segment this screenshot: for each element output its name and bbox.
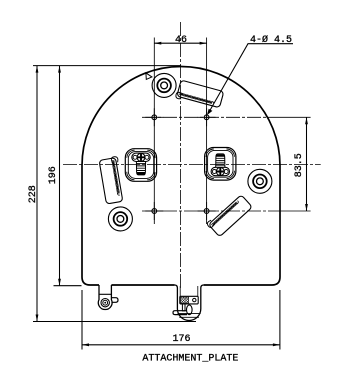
dim 196 line: [59, 66, 61, 286]
right clip small circle: [193, 298, 196, 301]
slot bottom-right: [206, 193, 252, 237]
extension line bottom 228: [33, 321, 196, 323]
extension line bottom 196: [54, 285, 82, 287]
dim 228 arrows: [36, 66, 39, 322]
leader 4-dia4.5: [208, 44, 293, 114]
extension line 176 right: [279, 290, 281, 350]
triangle marker: [146, 73, 152, 80]
left clip seam: [99, 293, 111, 295]
hole row line top (83.5 top extension): [142, 116, 282, 118]
left clip side nub: [111, 298, 118, 303]
hole top-left: [145, 108, 163, 126]
horizontal centerline: [63, 163, 321, 165]
left clip grommet rings: [101, 299, 109, 307]
svg-text:196: 196: [48, 166, 59, 184]
dim 83.5 line: [306, 117, 308, 211]
dim 196 arrows: [58, 66, 61, 286]
donut foot top: [152, 73, 176, 97]
svg-text:83.5: 83.5: [294, 153, 305, 177]
dim 46 extension/line: [154, 42, 206, 44]
dim 228 line: [36, 66, 38, 322]
dim 46 arrows: [154, 42, 206, 45]
svg-text:ATTACHMENT_PLATE: ATTACHMENT_PLATE: [142, 353, 238, 364]
right clip vertical bar: [182, 304, 185, 311]
svg-text:4-Ø 4.5: 4-Ø 4.5: [250, 34, 292, 46]
donut foot right: [248, 169, 272, 193]
right clip screw head (hatched): [181, 297, 189, 303]
svg-text:228: 228: [28, 185, 39, 203]
right clip hook loop: [187, 305, 193, 315]
dim 176 arrows: [82, 343, 280, 346]
right clip hardware block: [180, 296, 198, 304]
vertical centerline: [179, 22, 181, 290]
right clip pocket seams: [178, 314, 201, 318]
hole column line right (46 right extension): [206, 38, 208, 225]
grommet right (flipped): [205, 148, 236, 181]
hole column line left (46 left extension): [153, 38, 155, 225]
svg-text:46: 46: [175, 35, 187, 46]
leader arrow: [207, 109, 213, 115]
dim 176 line: [82, 344, 280, 346]
slot top: [175, 80, 224, 110]
plate bottom edge segments: [90, 284, 272, 286]
dim 83.5 arrows: [305, 117, 308, 211]
extension line 176 left: [81, 290, 83, 350]
hole row line bottom (83.5 bottom extension): [142, 210, 282, 212]
grommet left: [125, 149, 156, 182]
hole bottom-left: [145, 202, 163, 220]
hole top-right: [198, 108, 216, 126]
right clip block guides: [180, 286, 198, 296]
slot left: [99, 156, 125, 204]
donut foot bottom-left: [108, 207, 132, 231]
right clip hook arm: [173, 311, 187, 315]
right clip pocket outline: [175, 285, 204, 320]
plate outline: dome + sides + bottom corners: [82, 67, 280, 286]
left clip tab outline: [98, 285, 112, 310]
svg-text:176: 176: [172, 334, 190, 345]
extension line top (228/196): [33, 65, 181, 67]
hole bottom-right: [198, 202, 216, 220]
